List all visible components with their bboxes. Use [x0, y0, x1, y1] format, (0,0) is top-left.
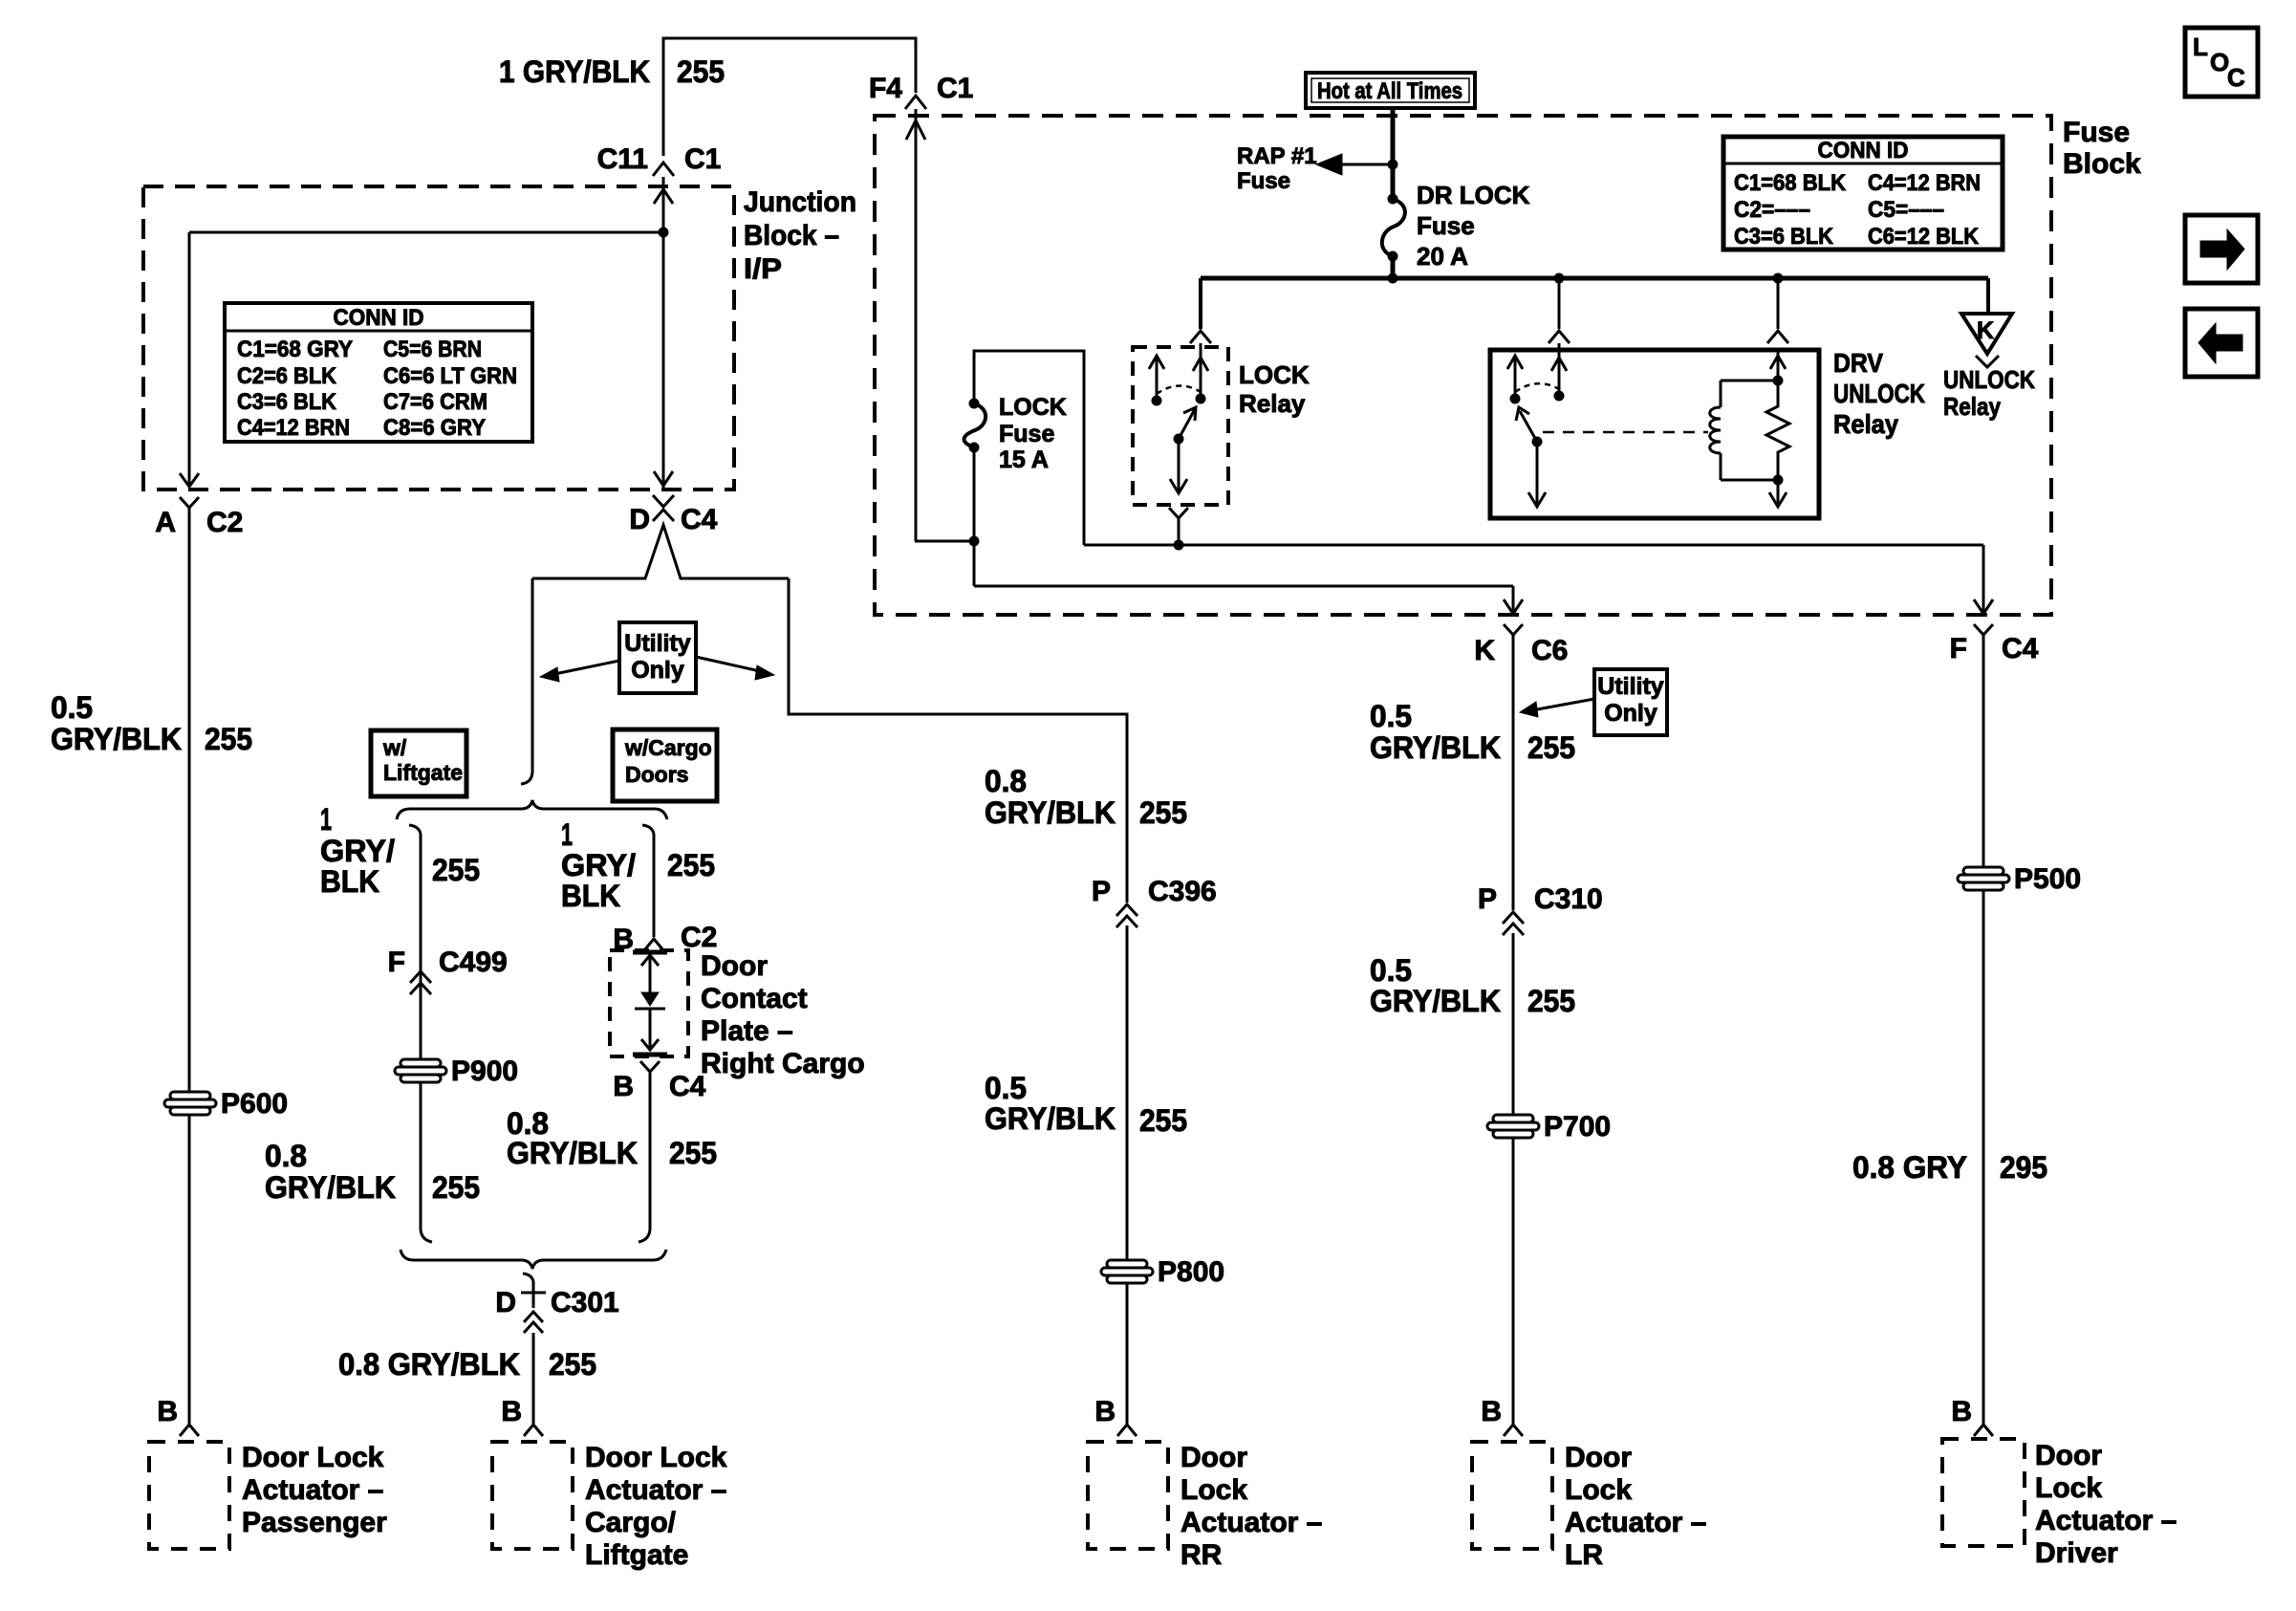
- relay resistor: [1766, 380, 1789, 480]
- svg-text:Actuator –: Actuator –: [1565, 1507, 1706, 1538]
- wire C301 to cargo actuator: [532, 1333, 535, 1424]
- svg-text:Relay: Relay: [1833, 409, 1898, 439]
- svg-text:C4: C4: [2002, 633, 2039, 664]
- connector B/C2 (cargo): [613, 922, 717, 955]
- svg-text:K: K: [1474, 635, 1495, 666]
- door lock actuator LR dashed box: [1472, 1442, 1552, 1549]
- svg-text:0.8 GRY/BLK: 0.8 GRY/BLK: [338, 1347, 520, 1382]
- connector A/C2: [155, 497, 243, 538]
- label 0.8 GRY/BLK 255 (liftgate): [265, 1139, 480, 1205]
- svg-text:C2=–––: C2=–––: [1734, 197, 1810, 223]
- svg-text:C4=12 BRN: C4=12 BRN: [237, 415, 350, 441]
- svg-text:0.5: 0.5: [1370, 953, 1412, 988]
- connector D/C4: [629, 495, 717, 535]
- brace top over branches: [397, 800, 667, 819]
- label UNLOCK Relay: [1943, 365, 2035, 421]
- wire F4 horizontal to fuse: [915, 540, 974, 543]
- splice P800: [1101, 1260, 1153, 1283]
- svg-text:A: A: [155, 507, 176, 538]
- wire left fork branch down: [521, 578, 532, 784]
- label 0.5 GRY/BLK 255 (LR upper): [1370, 699, 1575, 765]
- svg-text:Fuse: Fuse: [1417, 211, 1475, 240]
- svg-text:Door: Door: [1565, 1442, 1632, 1473]
- svg-text:GRY/BLK: GRY/BLK: [1370, 984, 1501, 1018]
- svg-text:Actuator –: Actuator –: [242, 1474, 383, 1506]
- svg-text:255: 255: [667, 848, 715, 882]
- svg-text:Lock: Lock: [2035, 1472, 2102, 1504]
- wire unlock line down to F C4: [1974, 545, 1993, 614]
- svg-text:C5=–––: C5=–––: [1868, 197, 1944, 223]
- svg-text:255: 255: [677, 54, 725, 89]
- svg-text:BLK: BLK: [561, 879, 620, 913]
- DRV UNLOCK relay switch: [1507, 350, 1567, 507]
- wire hot feed down: [1391, 108, 1396, 199]
- label RAP #1 Fuse: [1237, 143, 1317, 194]
- label 1 GRY/BLK 255 (liftgate): [320, 802, 480, 899]
- label 1 GRY/BLK 255: [499, 54, 725, 89]
- svg-text:C7=6 CRM: C7=6 CRM: [383, 389, 487, 415]
- label 0.8 GRY/BLK 255 (cargo): [507, 1106, 717, 1170]
- svg-text:Lock: Lock: [1565, 1474, 1632, 1506]
- LOCK relay dashed box: [1133, 347, 1228, 505]
- svg-text:Cargo/: Cargo/: [585, 1507, 677, 1538]
- svg-text:C310: C310: [1534, 883, 1603, 915]
- connector C11/C1: [597, 143, 722, 176]
- label 0.5 GRY/BLK 255 (passenger): [51, 690, 252, 756]
- svg-text:RR: RR: [1180, 1539, 1223, 1571]
- CONN ID table (junction block): [225, 303, 532, 442]
- svg-text:C396: C396: [1148, 876, 1217, 907]
- door lock actuator passenger dashed box: [149, 1442, 229, 1549]
- svg-text:Block –: Block –: [744, 220, 839, 251]
- wire liftgate branch: [409, 825, 432, 1242]
- svg-text:255: 255: [549, 1347, 596, 1382]
- wire LOCK fuse loop: [974, 351, 1084, 545]
- wire LR column upper: [1512, 646, 1515, 910]
- node lock relay output dot: [1174, 540, 1183, 550]
- label LOCK Relay: [1239, 360, 1310, 418]
- door lock actuator RR dashed box: [1088, 1442, 1168, 1549]
- svg-text:B: B: [1094, 1396, 1116, 1427]
- Utility Only box (right): [1594, 669, 1667, 735]
- label Door Lock Actuator LR: [1565, 1442, 1706, 1571]
- svg-text:Doors: Doors: [625, 762, 688, 787]
- svg-text:UNLOCK: UNLOCK: [1833, 379, 1925, 408]
- svg-text:Liftgate: Liftgate: [585, 1539, 688, 1571]
- LOC legend box: [2185, 28, 2258, 97]
- svg-text:Passenger: Passenger: [242, 1507, 387, 1538]
- svg-text:CONN ID: CONN ID: [334, 305, 424, 331]
- svg-text:I/P: I/P: [744, 253, 782, 285]
- arrow utility left: [540, 661, 619, 682]
- svg-text:P900: P900: [451, 1056, 518, 1087]
- svg-text:P: P: [1478, 883, 1497, 915]
- svg-text:Relay: Relay: [1239, 389, 1306, 418]
- svg-text:GRY/BLK: GRY/BLK: [51, 722, 182, 756]
- svg-text:255: 255: [432, 853, 480, 887]
- svg-text:D: D: [629, 504, 650, 535]
- wire P700 to LR actuator: [1512, 1138, 1515, 1424]
- wire right fork branch to RR column: [789, 578, 1127, 903]
- svg-text:Door Lock: Door Lock: [585, 1442, 727, 1473]
- Utility Only box (left): [619, 622, 696, 693]
- svg-text:Door: Door: [2035, 1440, 2102, 1471]
- svg-text:C1: C1: [937, 73, 973, 104]
- wire bus to DRV UNLOCK left: [1549, 278, 1570, 350]
- wire A branch vertical: [180, 232, 199, 487]
- svg-text:P600: P600: [221, 1088, 288, 1120]
- wire LR column mid: [1512, 933, 1515, 1115]
- label Door Lock Actuator RR: [1180, 1442, 1322, 1571]
- coil/resistor rails: [1721, 376, 1783, 485]
- svg-text:C499: C499: [439, 947, 508, 978]
- wire P800 to RR actuator: [1126, 1283, 1129, 1424]
- svg-text:C: C: [2227, 63, 2245, 92]
- svg-text:C4: C4: [669, 1071, 706, 1102]
- svg-text:C3=6 BLK: C3=6 BLK: [237, 389, 337, 415]
- wire horizontal to A branch: [189, 231, 663, 234]
- wire bus to UNLOCK relay: [1986, 278, 1990, 314]
- label 0.5 GRY/BLK 255 (LR lower): [1370, 953, 1575, 1018]
- svg-text:Contact: Contact: [701, 983, 808, 1014]
- svg-text:C3=6 BLK: C3=6 BLK: [1734, 224, 1834, 250]
- CONN ID table (fuse block): [1723, 137, 2003, 250]
- svg-text:B: B: [501, 1396, 522, 1427]
- wire fork from C4: [532, 525, 789, 578]
- brace bottom under branches: [401, 1250, 666, 1269]
- splice P700: [1487, 1115, 1539, 1138]
- arrow to RAP #1 fuse: [1316, 154, 1393, 175]
- connector below UNLOCK relay: [1976, 356, 1999, 367]
- connector B (RR): [1094, 1396, 1137, 1436]
- label Door Contact Plate Right Cargo: [701, 950, 865, 1079]
- svg-text:F4: F4: [869, 73, 902, 104]
- svg-text:Relay: Relay: [1943, 392, 2001, 421]
- connector P/C310: [1478, 883, 1603, 935]
- wire bus to DRV UNLOCK right: [1767, 278, 1788, 343]
- svg-text:K: K: [1977, 317, 1994, 344]
- svg-text:0.8: 0.8: [265, 1139, 307, 1173]
- svg-text:C301: C301: [551, 1287, 619, 1318]
- svg-text:Utility: Utility: [624, 630, 691, 657]
- svg-text:Only: Only: [1604, 700, 1657, 727]
- svg-text:C4: C4: [681, 504, 718, 535]
- arrow utility right: [696, 657, 774, 680]
- connector B (cargo actuator): [501, 1396, 543, 1436]
- svg-text:Door: Door: [701, 950, 768, 982]
- svg-text:Only: Only: [631, 657, 684, 684]
- wire LOCK fuse down: [973, 447, 976, 586]
- svg-text:D: D: [495, 1287, 516, 1318]
- svg-text:DR LOCK: DR LOCK: [1417, 181, 1530, 209]
- svg-text:C5=6 BRN: C5=6 BRN: [383, 337, 482, 362]
- svg-text:Fuse: Fuse: [999, 421, 1054, 447]
- svg-text:Actuator –: Actuator –: [1180, 1507, 1322, 1538]
- svg-text:Right Cargo: Right Cargo: [701, 1048, 865, 1079]
- svg-text:Fuse: Fuse: [2063, 117, 2130, 148]
- node bus dots: [1388, 273, 1783, 283]
- svg-text:LOCK: LOCK: [1239, 360, 1310, 389]
- svg-text:C4=12 BRN: C4=12 BRN: [1868, 170, 1981, 196]
- label LOCK Fuse 15 A: [999, 394, 1067, 473]
- svg-text:F: F: [1950, 633, 1967, 664]
- svg-text:Utility: Utility: [1597, 673, 1664, 700]
- svg-text:Actuator –: Actuator –: [585, 1474, 726, 1506]
- svg-text:B: B: [1481, 1396, 1502, 1427]
- svg-text:F: F: [388, 947, 405, 978]
- label 0.8 GRY 295 (driver): [1852, 1150, 2047, 1185]
- svg-text:GRY/: GRY/: [561, 848, 636, 882]
- connector F/C499: [388, 947, 508, 994]
- svg-text:L: L: [2193, 33, 2208, 61]
- svg-text:255: 255: [669, 1136, 717, 1170]
- label Door Lock Actuator Cargo/Liftgate: [585, 1442, 727, 1571]
- svg-text:C8=6 GRY: C8=6 GRY: [383, 415, 486, 441]
- fuse DR LOCK 20A: [1382, 194, 1405, 261]
- contact plate arrows: [633, 952, 667, 1055]
- connector B (LR): [1481, 1396, 1523, 1436]
- DRV UNLOCK relay box: [1490, 350, 1819, 518]
- wire LOCK relay output: [1169, 508, 1188, 545]
- left arrow legend box: [2185, 309, 2258, 377]
- svg-text:GRY/BLK: GRY/BLK: [985, 1101, 1116, 1136]
- svg-text:Driver: Driver: [2035, 1537, 2118, 1569]
- svg-text:GRY/BLK: GRY/BLK: [985, 795, 1116, 830]
- UNLOCK relay triangle K: [1961, 314, 2012, 354]
- svg-text:255: 255: [432, 1170, 480, 1205]
- splice P900: [395, 1059, 446, 1082]
- label Door Lock Actuator Passenger: [242, 1442, 387, 1538]
- connector B/C4 (cargo): [613, 1061, 705, 1102]
- wire driver column upper: [1982, 646, 1985, 867]
- svg-text:C1: C1: [684, 143, 721, 175]
- svg-text:255: 255: [1139, 795, 1187, 830]
- LOCK relay contacts: [1149, 350, 1208, 493]
- svg-text:LR: LR: [1565, 1539, 1603, 1571]
- svg-text:GRY/BLK: GRY/BLK: [507, 1136, 638, 1170]
- relay right terminal arrows: [1769, 350, 1787, 507]
- Hot at All Times box: [1306, 73, 1475, 108]
- svg-text:0.8: 0.8: [985, 764, 1027, 798]
- svg-text:P700: P700: [1544, 1111, 1611, 1143]
- svg-text:GRY/BLK: GRY/BLK: [1370, 730, 1501, 765]
- connector B (driver): [1951, 1396, 1993, 1436]
- svg-text:20 A: 20 A: [1417, 242, 1468, 271]
- svg-text:DRV: DRV: [1833, 348, 1883, 378]
- wire F4 down into fuse block: [906, 109, 925, 541]
- svg-text:w/: w/: [382, 735, 407, 760]
- connector F4/C1: [869, 73, 973, 109]
- label DR LOCK Fuse 20 A: [1417, 181, 1530, 271]
- svg-text:1: 1: [320, 802, 332, 837]
- wire unlock line (to F C4): [1084, 544, 1983, 547]
- svg-text:Junction: Junction: [744, 186, 856, 218]
- wire P500 to driver actuator: [1982, 890, 1985, 1424]
- svg-text:1: 1: [561, 817, 573, 852]
- relay coil: [1710, 381, 1721, 480]
- wire fuse to bus: [1391, 256, 1396, 278]
- wire cargo branch top: [642, 825, 654, 937]
- svg-text:255: 255: [1139, 1103, 1187, 1138]
- svg-text:15 A: 15 A: [999, 446, 1049, 473]
- label 0.8 GRY/BLK 255 (C301): [338, 1347, 596, 1382]
- svg-text:255: 255: [1527, 984, 1575, 1018]
- svg-text:C1=68 GRY: C1=68 GRY: [237, 337, 353, 362]
- svg-text:Door Lock: Door Lock: [242, 1442, 384, 1473]
- connector D/C301: [495, 1274, 618, 1333]
- connector B (passenger): [157, 1396, 199, 1436]
- svg-text:1 GRY/BLK: 1 GRY/BLK: [499, 54, 650, 89]
- label 0.5 GRY/BLK 255 (RR lower): [985, 1071, 1187, 1138]
- svg-text:P: P: [1092, 876, 1111, 907]
- wire lock fuse out to K C6: [974, 586, 1523, 614]
- wire C11 to F4 top run: [663, 38, 916, 156]
- svg-text:0.5: 0.5: [1370, 699, 1412, 733]
- node F4 tee dot: [969, 536, 979, 546]
- svg-text:Door: Door: [1180, 1442, 1247, 1473]
- wire RR column: [1126, 925, 1129, 1260]
- splice P600: [164, 1092, 216, 1115]
- splice P500: [1958, 867, 2009, 890]
- svg-text:Lock: Lock: [1180, 1474, 1247, 1506]
- svg-text:0.5: 0.5: [51, 690, 93, 725]
- svg-text:P800: P800: [1158, 1256, 1224, 1288]
- w/Cargo Doors box: [613, 729, 717, 801]
- wire C1 into junction block: [662, 177, 665, 488]
- svg-text:255: 255: [1527, 730, 1575, 765]
- wire bus to LOCK relay: [1190, 278, 1211, 350]
- connector F/C4 (driver): [1950, 624, 2039, 664]
- label Fuse Block: [2063, 117, 2141, 180]
- arrow utility only to wire: [1520, 699, 1594, 717]
- w/Liftgate box: [371, 730, 466, 796]
- svg-text:255: 255: [205, 722, 252, 756]
- label 0.8 GRY/BLK 255 (RR upper): [985, 764, 1187, 830]
- svg-text:RAP #1: RAP #1: [1237, 143, 1317, 169]
- svg-text:C1=68 BLK: C1=68 BLK: [1734, 170, 1847, 196]
- door lock actuator driver dashed box: [1942, 1439, 2025, 1546]
- svg-text:B: B: [1951, 1396, 1972, 1427]
- svg-text:C6: C6: [1531, 635, 1568, 666]
- svg-text:CONN ID: CONN ID: [1818, 138, 1909, 163]
- wire dashed actuation link: [1543, 431, 1708, 434]
- svg-text:LOCK: LOCK: [999, 394, 1067, 421]
- right arrow legend box: [2185, 215, 2258, 283]
- svg-text:Fuse: Fuse: [1237, 168, 1290, 194]
- fuse block dashed box: [875, 116, 2051, 615]
- door lock actuator cargo dashed box: [492, 1442, 573, 1549]
- wire A C2 down to passenger actuator: [188, 508, 191, 1424]
- fuse LOCK 15A: [964, 399, 986, 452]
- svg-text:295: 295: [2000, 1150, 2047, 1185]
- svg-text:BLK: BLK: [320, 864, 379, 899]
- label DRV UNLOCK Relay: [1833, 348, 1925, 439]
- label Door Lock Actuator Driver: [2035, 1440, 2177, 1569]
- svg-text:P500: P500: [2014, 863, 2081, 895]
- wire vertical inside junction block: [654, 189, 673, 486]
- svg-text:w/Cargo: w/Cargo: [624, 735, 712, 760]
- svg-text:C2: C2: [206, 507, 243, 538]
- svg-text:0.5: 0.5: [985, 1071, 1027, 1105]
- svg-text:GRY/: GRY/: [320, 834, 395, 868]
- wire cargo branch lower: [639, 1072, 650, 1242]
- svg-text:B: B: [157, 1396, 178, 1427]
- svg-text:0.8 GRY: 0.8 GRY: [1852, 1150, 1967, 1185]
- label Junction Block I/P: [744, 186, 856, 285]
- svg-text:UNLOCK: UNLOCK: [1943, 365, 2035, 394]
- label 1 GRY/BLK 255 (cargo): [561, 817, 715, 913]
- connector P/C396: [1092, 876, 1217, 927]
- svg-text:C6=12 BLK: C6=12 BLK: [1868, 224, 1980, 250]
- svg-text:C2=6 BLK: C2=6 BLK: [237, 363, 337, 389]
- connector K/C6: [1474, 624, 1568, 666]
- svg-text:GRY/BLK: GRY/BLK: [265, 1170, 396, 1205]
- svg-text:Block: Block: [2063, 148, 2141, 180]
- door contact plate dashed box: [610, 950, 688, 1056]
- svg-text:Liftgate: Liftgate: [383, 760, 463, 785]
- node junction dot: [659, 228, 668, 237]
- junction block I/P dashed box: [143, 186, 734, 490]
- svg-text:Hot at All Times: Hot at All Times: [1317, 78, 1462, 104]
- svg-text:C11: C11: [597, 143, 648, 175]
- bus wire (fuse output): [1201, 276, 1988, 281]
- svg-text:Actuator –: Actuator –: [2035, 1505, 2177, 1536]
- node RAP tap dot: [1388, 160, 1397, 169]
- svg-text:B: B: [613, 1071, 634, 1102]
- svg-text:Plate –: Plate –: [701, 1015, 793, 1047]
- svg-text:C6=6 LT GRN: C6=6 LT GRN: [383, 363, 517, 389]
